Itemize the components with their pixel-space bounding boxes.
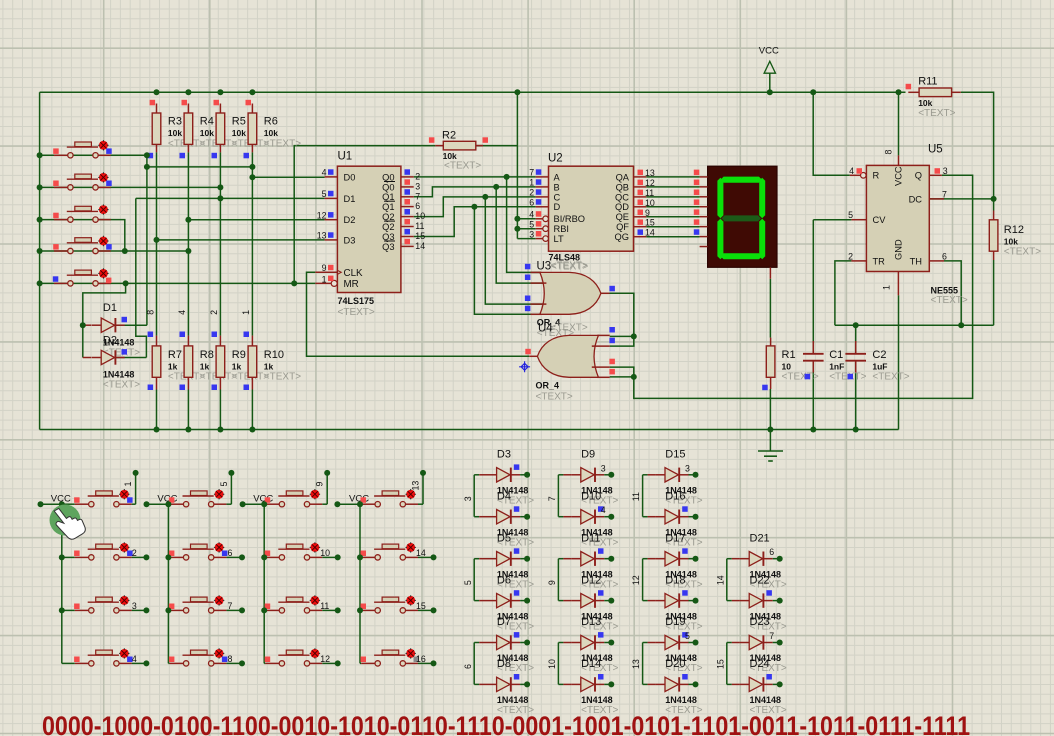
svg-text:8: 8 [228,654,233,664]
svg-text:<TEXT>: <TEXT> [536,392,573,403]
svg-text:D1: D1 [344,194,356,204]
wire C1 top [812,220,814,354]
svg-text:13: 13 [631,659,641,669]
svg-text:D1: D1 [103,302,117,314]
push button input row 1 [53,140,111,158]
svg-text:<TEXT>: <TEXT> [103,380,140,391]
wire segment c [646,196,699,198]
svg-text:1: 1 [322,274,327,284]
svg-text:D22: D22 [750,574,770,586]
svg-text:D9: D9 [581,449,595,461]
wire diode pair bracket net 3 [463,475,479,517]
svg-text:TR: TR [873,256,886,266]
OR gate U4 OR_4 [525,323,615,403]
svg-text:GND: GND [894,239,904,260]
7-segment display showing 0 [694,166,777,279]
svg-text:<TEXT>: <TEXT> [551,323,588,334]
svg-text:8: 8 [884,150,894,155]
svg-text:<TEXT>: <TEXT> [918,108,955,119]
diode D24 1N4148 [732,658,787,716]
wire R10 bottom [251,390,253,430]
svg-text:4: 4 [849,166,854,176]
wire VCC top bus [40,91,906,93]
svg-text:9: 9 [315,482,325,487]
wire diode pair bracket net 15 [715,643,731,685]
capacitor C1 1nF [803,341,867,383]
svg-text:R11: R11 [918,76,937,88]
svg-text:D20: D20 [665,658,685,670]
svg-text:10k: 10k [232,128,246,138]
svg-text:D23: D23 [750,616,770,628]
svg-text:14: 14 [415,241,425,251]
svg-text:1: 1 [529,178,534,188]
svg-text:QE: QE [616,212,629,222]
wire D0 input [252,176,324,178]
svg-text:D8: D8 [497,658,511,670]
wire button row 4 to R4 [40,250,189,252]
wire button row 5 to diode bus [40,283,126,357]
svg-text:5: 5 [529,220,534,230]
svg-text:NE555: NE555 [931,286,959,296]
svg-text:3: 3 [601,463,606,473]
svg-text:12: 12 [320,654,330,664]
svg-text:D3: D3 [344,235,356,245]
push button input row 2 [53,172,111,190]
wire matrix column 1 [41,473,147,664]
wire U3 output to U4 [610,293,634,336]
diode D11 1N4148 [563,532,618,590]
push button 12 matrix [265,648,341,666]
resistor R12 10k [989,211,1041,261]
svg-text:R8: R8 [200,349,214,361]
svg-text:1k: 1k [200,362,210,372]
svg-text:Q0: Q0 [382,172,394,182]
wire BI/RBO [517,218,535,220]
svg-text:R12: R12 [1004,224,1024,236]
wire R3-R7 column [156,152,158,335]
svg-text:13: 13 [317,231,327,241]
svg-text:<TEXT>: <TEXT> [338,307,375,318]
svg-text:10: 10 [415,211,425,221]
svg-text:2: 2 [415,172,420,182]
diode D6 1N4148 [479,574,534,632]
wire Q1 to B [414,187,536,197]
svg-text:10k: 10k [200,128,214,138]
svg-text:D21: D21 [750,532,770,544]
wire TR-TH link [835,324,994,326]
push button 15 matrix [357,595,437,613]
wire R9 bottom [219,390,221,430]
wire MR net [126,282,316,284]
svg-text:4: 4 [322,168,327,178]
wire D1 cathode row [115,324,147,326]
wire VCC to U5 R pin [813,92,850,175]
svg-text:BI/RBO: BI/RBO [554,214,586,224]
diode D19 1N4148 [648,616,703,674]
wire DC output [929,198,993,200]
wire A to U3 in1 [507,177,541,273]
wire U4 to Q of U5 bus [634,175,973,398]
wire R5-R9 column [219,152,221,335]
wire button row 1 to R3 [40,154,153,156]
wire MR to R2 left [294,146,435,284]
svg-text:D14: D14 [581,658,601,670]
svg-text:<TEXT>: <TEXT> [551,261,588,272]
svg-text:6: 6 [415,201,420,211]
svg-text:MR: MR [344,279,359,290]
svg-text:1: 1 [882,285,892,290]
svg-text:1uF: 1uF [872,362,887,372]
svg-text:74LS175: 74LS175 [338,296,375,306]
svg-text:10: 10 [320,548,330,558]
svg-text:A: A [554,172,561,182]
svg-text:9: 9 [547,580,557,585]
svg-text:D0: D0 [344,172,356,182]
svg-text:2: 2 [132,548,137,558]
svg-text:6: 6 [228,548,233,558]
diode D10 1N4148 [563,490,618,548]
svg-text:12: 12 [317,211,327,221]
wire R2 pullup vertical [516,92,518,238]
svg-text:14: 14 [715,575,725,585]
selection crosshair marker [519,361,530,372]
svg-text:R4: R4 [200,116,214,128]
IC U1 74LS175 quad D flip-flop [315,151,425,319]
push button 2 matrix [59,542,150,560]
VCC power symbol [759,46,779,74]
wire segment d [646,206,699,208]
svg-text:11: 11 [320,601,329,611]
wire D to U3 in4 [474,207,540,314]
svg-text:3: 3 [529,229,534,239]
svg-text:R10: R10 [264,349,284,361]
svg-text:10k: 10k [168,128,182,138]
diode D8 1N4148 [479,658,534,716]
svg-text:3: 3 [685,463,690,473]
svg-text:D16: D16 [665,490,685,502]
svg-text:10k: 10k [1004,237,1018,247]
svg-text:U1: U1 [338,151,353,163]
svg-text:D24: D24 [750,658,770,670]
OR gate U3 OR_4 [525,261,615,340]
wire matrix column 2 [147,473,243,664]
svg-text:1k: 1k [168,362,178,372]
wire matrix column 4 [337,473,433,664]
push button input row 3 [53,204,110,222]
svg-text:RBI: RBI [554,224,570,234]
svg-text:R9: R9 [232,349,246,361]
svg-text:QC: QC [615,192,629,202]
svg-text:D12: D12 [581,574,601,586]
resistor R6 10k pull-up [244,100,302,159]
push button 5 matrix [165,470,234,507]
svg-text:QD: QD [615,202,629,212]
binary sequence caption [42,711,970,736]
svg-text:7: 7 [547,496,557,501]
wire D2 input [188,219,324,221]
svg-text:15: 15 [645,218,655,228]
diode D7 1N4148 [479,616,534,674]
svg-text:U5: U5 [928,144,943,156]
svg-text:7: 7 [529,168,534,178]
wire bottom ground bus [40,429,899,431]
svg-text:R: R [873,171,880,181]
wire C2 top [855,325,857,353]
diode D12 1N4148 [563,574,618,632]
svg-text:U3: U3 [537,261,552,273]
diode D14 1N4148 [563,658,618,716]
svg-text:2: 2 [209,310,219,315]
svg-text:5: 5 [463,580,473,585]
svg-text:D2: D2 [103,334,117,346]
svg-text:13: 13 [410,481,420,491]
VCC label column 4 [334,493,369,507]
IC U5 NE555 timer [848,144,968,307]
svg-text:D3: D3 [497,449,511,461]
svg-text:1N4148: 1N4148 [103,370,135,380]
svg-text:3: 3 [463,496,473,501]
svg-text:<TEXT>: <TEXT> [872,372,909,383]
svg-text:<TEXT>: <TEXT> [1004,247,1041,258]
svg-text:6: 6 [942,251,947,261]
wire button row 2 to R5 [40,186,221,188]
svg-text:8: 8 [145,310,155,315]
wire Q3 to D [414,207,536,237]
svg-text:3: 3 [943,166,948,176]
svg-text:6: 6 [463,664,473,669]
svg-text:D13: D13 [581,616,601,628]
svg-text:13: 13 [645,168,655,178]
svg-text:4: 4 [132,654,137,664]
hand cursor [50,505,86,540]
push button 4 matrix [74,648,149,666]
VCC label column 2 [144,493,178,507]
wire R8 bottom [187,390,189,430]
wire CV pin [813,219,851,221]
svg-text:B: B [554,182,560,192]
diode D23 1N4148 [732,616,787,674]
svg-text:C2: C2 [872,349,886,361]
wire TH pin [944,261,961,325]
push button 14 matrix [357,542,437,560]
svg-text:4: 4 [177,310,187,315]
svg-text:QB: QB [616,182,629,192]
svg-text:D11: D11 [581,532,600,544]
wire LT [517,238,535,240]
svg-text:7: 7 [228,601,233,611]
wire D1 input [136,197,325,199]
wire D2 cathode row [115,357,147,359]
svg-text:15: 15 [415,231,425,241]
svg-text:D18: D18 [665,574,685,586]
VCC label column 3 [240,493,274,507]
wire D3 input [157,239,325,241]
svg-text:15: 15 [416,601,426,611]
wire diode pair bracket net 6 [463,643,479,685]
diode D21 1N4148 [732,532,787,590]
wire R11 to R12 [961,92,994,210]
svg-text:1N4148: 1N4148 [665,695,697,705]
wire ground bus riser to U5 GND [898,295,900,429]
wire B to U3 in2 [496,187,546,283]
svg-text:15: 15 [715,659,725,669]
wire R2 right [475,145,517,147]
svg-text:D15: D15 [665,449,685,461]
wire TR pin [835,261,852,325]
svg-text:10k: 10k [918,98,932,108]
svg-text:12: 12 [631,575,641,585]
svg-text:R7: R7 [168,349,182,361]
svg-text:5: 5 [685,631,690,641]
capacitor C2 1uF [845,341,909,383]
svg-text:OR_4: OR_4 [536,380,560,390]
svg-text:1N4148: 1N4148 [581,695,613,705]
wire C to U3 in3 [485,197,546,304]
diode D1 1N4148 [92,302,141,358]
wire diode pair bracket net 11 [631,475,647,517]
svg-text:11: 11 [415,221,424,231]
push button input row 5 (reset) [53,268,112,286]
wire CLK to U4 output [307,272,530,356]
svg-text:<TEXT>: <TEXT> [782,372,819,383]
svg-text:3: 3 [415,182,420,192]
wire C1 bottom [812,361,814,430]
svg-text:1nF: 1nF [829,362,844,372]
wire D2 anode stub lead [83,357,91,359]
svg-text:TH: TH [910,256,922,266]
svg-text:D4: D4 [497,490,511,502]
svg-text:10: 10 [782,362,792,372]
wire D2 cathode riser to D1 data net [136,198,147,357]
wire diode pair bracket net 5 [463,559,479,601]
VCC label column 1 [38,493,71,507]
svg-text:LT: LT [554,234,564,244]
ground symbol [758,451,783,461]
svg-text:14: 14 [416,548,426,558]
svg-text:11: 11 [645,188,654,198]
svg-text:1N4148: 1N4148 [497,695,529,705]
svg-text:D: D [554,202,561,212]
svg-text:D17: D17 [665,532,685,544]
wire link row1 net to R6 net [147,166,253,168]
wire VCC to U5 pin8 [898,92,900,155]
wire left common bus [39,92,41,429]
svg-text:16: 16 [416,654,426,664]
svg-text:10k: 10k [443,151,457,161]
wire segment b [646,186,699,188]
resistor R11 10k [906,76,961,120]
IC U2 74LS48 BCD to 7-segment decoder [529,153,655,273]
svg-text:D10: D10 [581,490,601,502]
wire U4 in4 [610,376,634,378]
wire U4 in2 [610,336,634,346]
diode D18 1N4148 [648,574,703,632]
diode D2 1N4148 [92,334,141,390]
push button 16 matrix [361,648,437,666]
svg-text:VCC: VCC [759,46,779,57]
svg-text:7: 7 [415,191,420,201]
svg-text:VCC: VCC [894,166,904,186]
resistor R2 10k [429,129,488,171]
svg-text:C1: C1 [829,349,843,361]
resistor R8 1k [177,310,237,390]
resistor R3 10k pull-up [148,100,206,159]
wire segment f [646,226,699,228]
wire C2 bottom [855,361,857,430]
svg-text:7: 7 [942,189,947,199]
svg-text:R3: R3 [168,116,182,128]
svg-text:R2: R2 [442,129,456,141]
svg-text:11: 11 [631,492,641,501]
wire R12 bottom [993,260,995,325]
push button 3 matrix [59,595,150,613]
diode D16 1N4148 [648,490,703,548]
wire R6-R10 column [251,152,253,335]
resistor R9 1k [209,310,269,390]
svg-text:4: 4 [601,505,606,515]
svg-text:6: 6 [529,198,534,208]
svg-text:1: 1 [241,310,251,315]
svg-text:<TEXT>: <TEXT> [931,295,968,306]
wire diode pair bracket net 14 [715,559,731,601]
diode D13 1N4148 [563,616,618,674]
svg-text:CV: CV [873,215,887,225]
svg-text:U2: U2 [548,153,563,165]
svg-text:R6: R6 [264,116,278,128]
svg-text:R5: R5 [232,116,246,128]
svg-text:C: C [554,192,561,202]
wire Q2 to C [414,197,536,217]
push button 8 matrix [169,648,245,666]
wire ground stub [769,430,771,452]
diode D4 1N4148 [479,490,534,548]
svg-text:10k: 10k [264,128,278,138]
svg-text:1k: 1k [264,362,274,372]
wire row1 net vertical [146,155,148,325]
svg-text:D7: D7 [497,616,511,628]
svg-text:10: 10 [645,198,655,208]
svg-text:DC: DC [909,194,923,204]
svg-text:1k: 1k [232,362,242,372]
svg-text:5: 5 [219,482,229,487]
svg-text:Q1: Q1 [382,202,394,212]
wire diode pair bracket net 7 [547,475,563,517]
diode D9 1N4148 [563,449,618,507]
diode D17 1N4148 [648,532,703,590]
diode D3 1N4148 [479,449,534,507]
svg-text:14: 14 [645,228,655,238]
wire D1 anode stub lead [83,324,91,326]
svg-text:1: 1 [123,482,133,487]
svg-text:0000-1000-0100-1100-0010-1010-: 0000-1000-0100-1100-0010-1010-0110-1110-… [42,711,970,736]
resistor R1 10 [762,338,819,391]
svg-text:9: 9 [322,263,327,273]
wire R4-R8 column [187,152,189,335]
push button 11 matrix [261,595,341,613]
svg-text:CLK: CLK [344,268,364,279]
resistor R5 10k pull-up [212,100,270,159]
wire segment a [646,176,699,178]
wire U4 in1 [610,335,634,337]
svg-text:QA: QA [616,172,630,182]
resistor R7 1k [145,310,205,390]
wire segment e [646,216,699,218]
svg-text:<TEXT>: <TEXT> [444,161,481,172]
svg-text:D19: D19 [665,616,685,628]
svg-text:2: 2 [529,188,534,198]
svg-text:D6: D6 [497,574,511,586]
svg-text:<TEXT>: <TEXT> [264,138,301,149]
